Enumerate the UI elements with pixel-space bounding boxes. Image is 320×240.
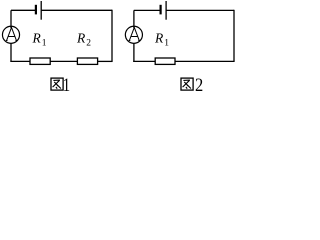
svg-text:R: R [76, 30, 86, 45]
svg-text:2: 2 [195, 74, 203, 95]
svg-text:R: R [32, 30, 42, 45]
svg-text:1: 1 [164, 39, 169, 49]
svg-text:1: 1 [42, 39, 47, 49]
svg-text:2: 2 [86, 39, 91, 49]
svg-text:1: 1 [63, 74, 70, 95]
svg-text:R: R [154, 30, 164, 45]
